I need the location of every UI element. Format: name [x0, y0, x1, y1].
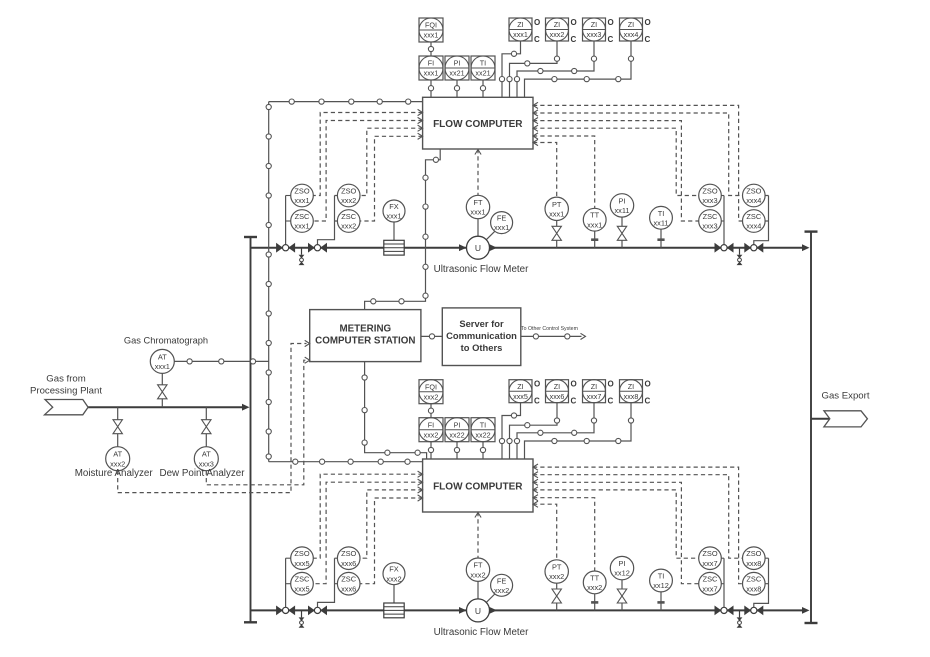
- switch ZSO xxx5: [291, 547, 314, 570]
- indicator ZI xxx1: [509, 18, 540, 44]
- box: flow computer 2: [423, 459, 533, 512]
- signal: ZSC xxx5 to flow computer 2: [313, 482, 422, 584]
- gauge TI xx12: [650, 569, 673, 592]
- wire: ZI xxx8 to flow computer 2: [525, 403, 632, 459]
- svg-text:ZSC: ZSC: [703, 212, 718, 221]
- wire: FT xxx1 to meter: [477, 219, 479, 237]
- svg-text:FI: FI: [428, 420, 434, 429]
- svg-text:ZSO: ZSO: [341, 187, 356, 196]
- svg-text:xxx8: xxx8: [624, 392, 639, 401]
- svg-text:AT: AT: [202, 450, 211, 459]
- arrow: flow into meter run 2: [459, 607, 467, 614]
- indicator PI xx21: [445, 56, 469, 80]
- svg-text:C: C: [608, 397, 614, 406]
- transmitter FT xxx2: [466, 558, 489, 581]
- switch ZSO xxx2: [337, 184, 360, 207]
- svg-text:xx22: xx22: [475, 430, 490, 439]
- svg-text:xxx5: xxx5: [294, 584, 309, 593]
- svg-text:C: C: [645, 397, 651, 406]
- signal: ZSO xxx4 to flow computer 1: [533, 113, 743, 196]
- svg-text:Processing Plant: Processing Plant: [30, 386, 102, 397]
- wire: run 2 valve C stem: [723, 558, 725, 607]
- signal: FT xxx1 to flow computer 1: [477, 149, 479, 195]
- wire: FI xxx2 to flow computer 2: [430, 442, 432, 459]
- thermowell TT xxx1: [591, 231, 598, 248]
- wire: PI xx21 to flow computer 1: [456, 80, 458, 97]
- svg-text:xxx1: xxx1: [386, 212, 401, 221]
- flow conditioner tag FX xxx1: [383, 200, 405, 222]
- svg-text:To Other Control System: To Other Control System: [521, 326, 578, 332]
- svg-text:O: O: [645, 18, 651, 27]
- thermowell TI xx11: [657, 229, 664, 248]
- box: flow computer 1: [423, 97, 533, 149]
- svg-text:ZI: ZI: [591, 20, 597, 29]
- signal: ZSC xxx6 to flow computer 2: [360, 498, 423, 584]
- valve: PT xxx2 isolation: [552, 589, 561, 603]
- svg-text:xx11: xx11: [614, 206, 629, 215]
- valve: AT xxx3 isolation: [202, 420, 211, 434]
- element FE xxx2: [491, 574, 513, 596]
- wire: FQI xxx2 to FI xxx2 link: [430, 404, 432, 418]
- svg-text:ZSO: ZSO: [702, 549, 717, 558]
- flag: Gas Export: [824, 411, 868, 427]
- switch ZSC xxx8: [743, 572, 766, 595]
- signal: ZSC xxx8 to flow computer 2: [533, 467, 743, 584]
- wire: left pipe header: [244, 237, 257, 622]
- svg-text:xxx6: xxx6: [341, 559, 356, 568]
- svg-text:Gas Export: Gas Export: [822, 391, 870, 402]
- box: metering computer station: [310, 310, 421, 362]
- signal: ZSO xxx3 to flow computer 1: [533, 128, 699, 195]
- wire: ZI xxx1 to flow computer 1: [502, 41, 521, 97]
- wire: FE xxx1 to meter: [486, 231, 495, 239]
- wire: ZI xxx3 to flow computer 1: [517, 41, 594, 97]
- svg-text:ZSO: ZSO: [746, 187, 761, 196]
- indicator ZI xxx3: [583, 18, 614, 44]
- indicator FQI xxx2: [419, 380, 443, 404]
- svg-text:U: U: [475, 243, 481, 253]
- indicator FI xxx2: [419, 418, 443, 442]
- arrow: flow into meter run 1: [459, 244, 467, 251]
- svg-text:xxx4: xxx4: [624, 30, 639, 39]
- svg-text:ZI: ZI: [628, 382, 634, 391]
- svg-text:xx22: xx22: [449, 430, 464, 439]
- svg-text:ZSO: ZSO: [702, 187, 717, 196]
- svg-text:O: O: [645, 380, 651, 389]
- switch ZSO xxx7: [699, 547, 722, 570]
- valve: run 1 outlet block D: [744, 243, 763, 253]
- svg-text:xxx3: xxx3: [702, 196, 717, 205]
- svg-text:FX: FX: [389, 565, 399, 574]
- svg-text:xxx1: xxx1: [494, 223, 509, 232]
- wire: PI xx22 to flow computer 2: [456, 442, 458, 459]
- wire: PT xxx1 stem: [556, 221, 558, 227]
- signal: AT xxx3 to metering computer station: [206, 360, 306, 485]
- svg-text:xxx3: xxx3: [702, 222, 717, 231]
- valve: run 2 outlet block D: [744, 606, 763, 616]
- valve: PI xx11 isolation: [617, 226, 626, 240]
- valve: run 2 inlet block A: [276, 606, 295, 616]
- svg-text:PT: PT: [552, 200, 562, 209]
- svg-text:xx21: xx21: [449, 69, 464, 78]
- svg-text:xxx6: xxx6: [550, 392, 565, 401]
- svg-text:Server for: Server for: [459, 318, 504, 329]
- wire: ZI xxx4 to flow computer 1: [525, 41, 632, 97]
- switch ZSO xxx3: [699, 184, 722, 207]
- wire: right pipe header: [805, 232, 818, 623]
- svg-text:xx21: xx21: [475, 69, 490, 78]
- switch ZSC xxx3: [699, 210, 722, 233]
- svg-text:xxx7: xxx7: [702, 559, 717, 568]
- svg-text:FE: FE: [497, 576, 507, 585]
- svg-text:O: O: [571, 18, 577, 27]
- svg-text:TI: TI: [480, 420, 486, 429]
- indicator TI xx22: [471, 418, 495, 442]
- svg-text:Gas from: Gas from: [46, 374, 85, 385]
- svg-text:Dew Point Analyzer: Dew Point Analyzer: [160, 468, 246, 479]
- svg-text:O: O: [534, 380, 540, 389]
- signal: ZSC xxx7 to flow computer 2: [533, 482, 699, 583]
- wire: gas export branch: [811, 418, 830, 420]
- switch ZSC xxx7: [699, 572, 722, 595]
- wire: meter run 1 pipe: [251, 247, 807, 249]
- wire: run 1 valve A stem: [285, 196, 287, 245]
- wire: flow computer 1 to metering computer station: [365, 149, 441, 310]
- svg-text:O: O: [534, 18, 540, 27]
- svg-text:xxx2: xxx2: [341, 222, 356, 231]
- svg-text:xx12: xx12: [653, 581, 669, 590]
- signal: ZSC xxx3 to flow computer 1: [533, 121, 699, 221]
- svg-text:FQI: FQI: [425, 21, 437, 30]
- arrow: flow out of meter run 2: [490, 607, 498, 614]
- svg-text:xxx2: xxx2: [587, 583, 602, 592]
- svg-text:xxx1: xxx1: [587, 220, 602, 229]
- wire: AT xxx1 stem upper: [161, 373, 163, 384]
- valve: run 1 inlet block B: [308, 243, 327, 253]
- wire: FX xxx2 stem: [393, 585, 395, 603]
- signal: ZSC xxx2 to flow computer 1: [360, 136, 423, 221]
- junction: feed into left header: [242, 404, 250, 411]
- flow conditioner xxx1: [384, 240, 404, 255]
- valve: run 2 inlet bleed: [299, 610, 305, 627]
- svg-text:FI: FI: [428, 59, 434, 68]
- wire: PI xx12 stem: [621, 580, 623, 589]
- svg-text:FQI: FQI: [425, 382, 437, 391]
- svg-text:xxx2: xxx2: [424, 392, 439, 401]
- svg-text:ZI: ZI: [554, 382, 560, 391]
- junction: run 2 into right header: [802, 607, 810, 614]
- valve: run 2 outlet block C: [715, 606, 734, 616]
- indicator ZI xxx6: [546, 380, 577, 406]
- svg-text:xxx2: xxx2: [549, 572, 564, 581]
- svg-text:xxx2: xxx2: [550, 30, 565, 39]
- svg-text:ZSO: ZSO: [746, 549, 761, 558]
- wire: run 2 valve A stem: [285, 558, 287, 607]
- svg-text:ZSO: ZSO: [294, 187, 309, 196]
- wire: PI xx11 tap: [621, 240, 623, 247]
- valve: AT xxx1 isolation: [158, 385, 167, 399]
- analyzer AT xxx1: [150, 349, 174, 373]
- svg-text:FLOW COMPUTER: FLOW COMPUTER: [433, 482, 523, 493]
- svg-text:xxx4: xxx4: [746, 222, 761, 231]
- wire: metering computer station to server: [421, 335, 442, 337]
- gauge TI xx11: [650, 206, 673, 229]
- svg-text:PT: PT: [552, 563, 562, 572]
- svg-text:AT: AT: [158, 352, 167, 361]
- svg-text:ZSO: ZSO: [294, 549, 309, 558]
- wire: ZI xxx2 to flow computer 1: [510, 41, 558, 97]
- svg-text:C: C: [571, 397, 577, 406]
- wire: server to other control system: [521, 335, 582, 337]
- gauge PI xx11: [610, 194, 633, 217]
- svg-text:Ultrasonic Flow Meter: Ultrasonic Flow Meter: [434, 627, 529, 638]
- valve: run 2 outlet bleed: [737, 610, 743, 627]
- thermowell TT xxx2: [591, 594, 598, 611]
- wire: ZI xxx6 to flow computer 2: [510, 403, 558, 459]
- wire: FT xxx2 to meter: [477, 581, 479, 599]
- transmitter TT xxx1: [583, 208, 606, 231]
- svg-text:ZSC: ZSC: [341, 575, 356, 584]
- svg-text:FT: FT: [473, 561, 483, 570]
- valve: run 1 outlet block C: [715, 243, 734, 253]
- flow conditioner xxx2: [384, 603, 404, 618]
- svg-text:METERING: METERING: [339, 324, 391, 335]
- svg-text:Ultrasonic Flow Meter: Ultrasonic Flow Meter: [434, 264, 529, 275]
- flag: Gas from Processing Plant: [45, 400, 89, 415]
- svg-text:ZI: ZI: [517, 20, 523, 29]
- svg-text:TI: TI: [480, 59, 486, 68]
- svg-text:TI: TI: [658, 209, 665, 218]
- switch ZSC xxx4: [743, 210, 766, 233]
- wire: run 1 valve B stem: [318, 196, 338, 245]
- svg-text:xxx8: xxx8: [746, 559, 761, 568]
- wire: run 2 valve D stem: [754, 558, 769, 607]
- wire: AT xxx3 tap upper: [205, 407, 207, 420]
- svg-text:xxx1: xxx1: [424, 31, 439, 40]
- indicator ZI xxx7: [583, 380, 614, 406]
- signal: ZSO xxx6 to flow computer 2: [360, 490, 423, 558]
- svg-text:PI: PI: [454, 420, 461, 429]
- svg-text:AT: AT: [113, 450, 122, 459]
- wire: FE xxx2 to meter: [486, 594, 495, 602]
- wire: AT xxx1 stem lower: [161, 399, 163, 407]
- svg-text:FX: FX: [389, 202, 399, 211]
- svg-text:to Others: to Others: [461, 342, 503, 353]
- svg-text:PI: PI: [619, 559, 626, 568]
- svg-text:FLOW COMPUTER: FLOW COMPUTER: [433, 119, 523, 130]
- svg-text:COMPUTER STATION: COMPUTER STATION: [315, 336, 415, 347]
- transmitter FT xxx1: [466, 195, 489, 218]
- box: server for communication: [442, 308, 521, 366]
- svg-text:xxx4: xxx4: [746, 196, 761, 205]
- valve: AT xxx2 isolation: [113, 420, 122, 434]
- signal: ZSO xxx1 to flow computer 1: [313, 113, 422, 196]
- wire: FX xxx1 stem: [393, 222, 395, 240]
- arrow: to other control system: [581, 333, 586, 339]
- switch ZSC xxx5: [291, 572, 314, 595]
- svg-text:O: O: [571, 380, 577, 389]
- svg-text:PI: PI: [454, 59, 461, 68]
- svg-text:xxx5: xxx5: [513, 392, 528, 401]
- indicator ZI xxx2: [546, 18, 577, 44]
- svg-text:xxx1: xxx1: [513, 30, 528, 39]
- svg-text:ZSC: ZSC: [703, 575, 718, 584]
- indicator FI xxx1: [419, 56, 443, 80]
- svg-text:FT: FT: [473, 198, 483, 207]
- svg-text:xxx7: xxx7: [587, 392, 602, 401]
- switch ZSO xxx1: [291, 184, 314, 207]
- signal: ZSO xxx8 to flow computer 2: [533, 475, 743, 559]
- valve: run 1 inlet block A: [276, 243, 295, 253]
- switch ZSO xxx4: [743, 184, 766, 207]
- indicator ZI xxx5: [509, 380, 540, 406]
- switch ZSC xxx2: [337, 210, 360, 233]
- meter: ultrasonic flow meter U (run 1): [467, 236, 490, 259]
- signal: TT xxx1 to flow computer 1: [533, 136, 595, 208]
- svg-text:PI: PI: [619, 196, 626, 205]
- wire: AT xxx2 tap lower: [117, 434, 119, 447]
- wire: meter run 2 pipe: [251, 609, 807, 611]
- wire: AT xxx2 tap upper: [117, 407, 119, 420]
- wire: inlet feed pipe: [88, 406, 246, 408]
- wire: PT xxx2 tap: [556, 603, 558, 610]
- switch ZSC xxx1: [291, 210, 314, 233]
- svg-text:C: C: [534, 35, 540, 44]
- signal: AT xxx2 to metering computer station: [118, 344, 307, 493]
- wire: AT xxx1 data link: [174, 360, 268, 362]
- wire: PT xxx1 tap: [556, 240, 558, 247]
- valve: run 1 inlet bleed: [299, 248, 305, 265]
- svg-text:Moisture Analyzer: Moisture Analyzer: [75, 468, 154, 479]
- wire: trunk to flow computer 1: [269, 101, 423, 103]
- svg-text:Gas Chromatograph: Gas Chromatograph: [124, 336, 208, 346]
- wire: PI xx12 tap: [621, 603, 623, 610]
- junction: run 1 into right header: [802, 244, 810, 251]
- wire: metering computer station to flow computer 2: [365, 362, 427, 459]
- wire: run 1 valve D stem: [754, 196, 769, 245]
- indicator FQI xxx1: [419, 18, 443, 42]
- meter: ultrasonic flow meter U (run 2): [467, 599, 490, 622]
- svg-text:ZSC: ZSC: [746, 575, 761, 584]
- wire: trunk to flow computer 2: [269, 461, 423, 463]
- indicator ZI xxx8: [620, 380, 651, 406]
- wire: TI xx21 to flow computer 1: [482, 80, 484, 97]
- element FE xxx1: [491, 212, 513, 234]
- svg-text:ZSC: ZSC: [295, 575, 310, 584]
- valve: run 2 inlet block B: [308, 606, 327, 616]
- transmitter PT xxx2: [545, 560, 568, 583]
- signal: TT xxx2 to flow computer 2: [533, 498, 595, 571]
- transmitter TT xxx2: [583, 571, 606, 594]
- signal: ZSC xxx4 to flow computer 1: [533, 105, 743, 221]
- svg-text:xxx1: xxx1: [549, 209, 564, 218]
- svg-text:ZSC: ZSC: [341, 212, 356, 221]
- wire: run 1 valve C stem: [723, 196, 725, 245]
- svg-text:C: C: [645, 35, 651, 44]
- svg-text:U: U: [475, 606, 481, 616]
- svg-text:TT: TT: [590, 211, 600, 220]
- svg-text:Communication: Communication: [446, 330, 517, 341]
- svg-text:xxx6: xxx6: [341, 584, 356, 593]
- wire: ZI xxx7 to flow computer 2: [517, 403, 594, 459]
- indicator PI xx22: [445, 418, 469, 442]
- signal: PT xxx1 to flow computer 1: [533, 143, 557, 198]
- valve: PT xxx1 isolation: [552, 226, 561, 240]
- svg-text:O: O: [608, 380, 614, 389]
- wire: ZI xxx5 to flow computer 2: [502, 403, 521, 459]
- analyzer AT xxx3: [194, 447, 218, 471]
- wire: FQI xxx1 to FI xxx1 link: [430, 42, 432, 56]
- valve: PI xx12 isolation: [617, 589, 626, 603]
- indicator TI xx21: [471, 56, 495, 80]
- svg-text:C: C: [534, 397, 540, 406]
- switch ZSC xxx6: [337, 572, 360, 595]
- svg-text:xxx2: xxx2: [341, 196, 356, 205]
- gauge PI xx12: [610, 556, 633, 579]
- wire: chromatograph data trunk: [268, 102, 270, 462]
- wire: FI xxx1 to flow computer 1: [430, 80, 432, 97]
- analyzer AT xxx2: [106, 447, 130, 471]
- svg-text:xxx2: xxx2: [386, 574, 401, 583]
- signal: PT xxx2 to flow computer 2: [533, 504, 557, 560]
- svg-text:FE: FE: [497, 214, 507, 223]
- svg-text:ZI: ZI: [591, 382, 597, 391]
- svg-text:C: C: [608, 35, 614, 44]
- transmitter PT xxx1: [545, 197, 568, 220]
- svg-text:xxx1: xxx1: [294, 222, 309, 231]
- switch ZSO xxx8: [743, 547, 766, 570]
- wire: TI xx22 to flow computer 2: [482, 442, 484, 459]
- svg-text:ZSC: ZSC: [295, 212, 310, 221]
- svg-text:xx12: xx12: [614, 569, 630, 578]
- svg-text:O: O: [608, 18, 614, 27]
- svg-text:TT: TT: [590, 573, 600, 582]
- svg-text:ZI: ZI: [517, 382, 523, 391]
- svg-text:xxx1: xxx1: [155, 362, 170, 371]
- svg-text:xxx1: xxx1: [424, 69, 439, 78]
- svg-text:C: C: [571, 35, 577, 44]
- svg-text:xxx1: xxx1: [294, 196, 309, 205]
- svg-text:xxx2: xxx2: [424, 430, 439, 439]
- signal: ZSC xxx1 to flow computer 1: [313, 121, 422, 222]
- signal: ZSO xxx2 to flow computer 1: [360, 128, 423, 195]
- signal: ZSO xxx5 to flow computer 2: [313, 474, 422, 558]
- svg-text:ZSC: ZSC: [746, 212, 761, 221]
- svg-text:ZSO: ZSO: [341, 549, 356, 558]
- thermowell TI xx12: [657, 592, 664, 611]
- valve: run 1 outlet bleed: [737, 248, 743, 265]
- wire: run 2 valve B stem: [318, 558, 338, 607]
- arrow: flow out of meter run 1: [490, 244, 498, 251]
- svg-text:TI: TI: [658, 572, 665, 581]
- signal: ZSO xxx7 to flow computer 2: [533, 490, 699, 558]
- svg-text:xx11: xx11: [653, 218, 668, 227]
- svg-text:xxx2: xxx2: [470, 570, 485, 579]
- svg-text:xxx2: xxx2: [494, 586, 509, 595]
- switch ZSO xxx6: [337, 547, 360, 570]
- wire: AT xxx3 tap lower: [205, 434, 207, 447]
- svg-text:xxx3: xxx3: [587, 30, 602, 39]
- wire: PT xxx2 stem: [556, 583, 558, 589]
- flow conditioner tag FX xxx2: [383, 563, 405, 585]
- svg-text:xxx8: xxx8: [746, 584, 761, 593]
- svg-text:xxx1: xxx1: [470, 208, 485, 217]
- indicator ZI xxx4: [620, 18, 651, 44]
- signal: FT xxx2 to flow computer 2: [477, 512, 479, 558]
- svg-text:xxx7: xxx7: [702, 584, 717, 593]
- wire: PI xx11 stem: [621, 217, 623, 226]
- svg-text:ZI: ZI: [628, 20, 634, 29]
